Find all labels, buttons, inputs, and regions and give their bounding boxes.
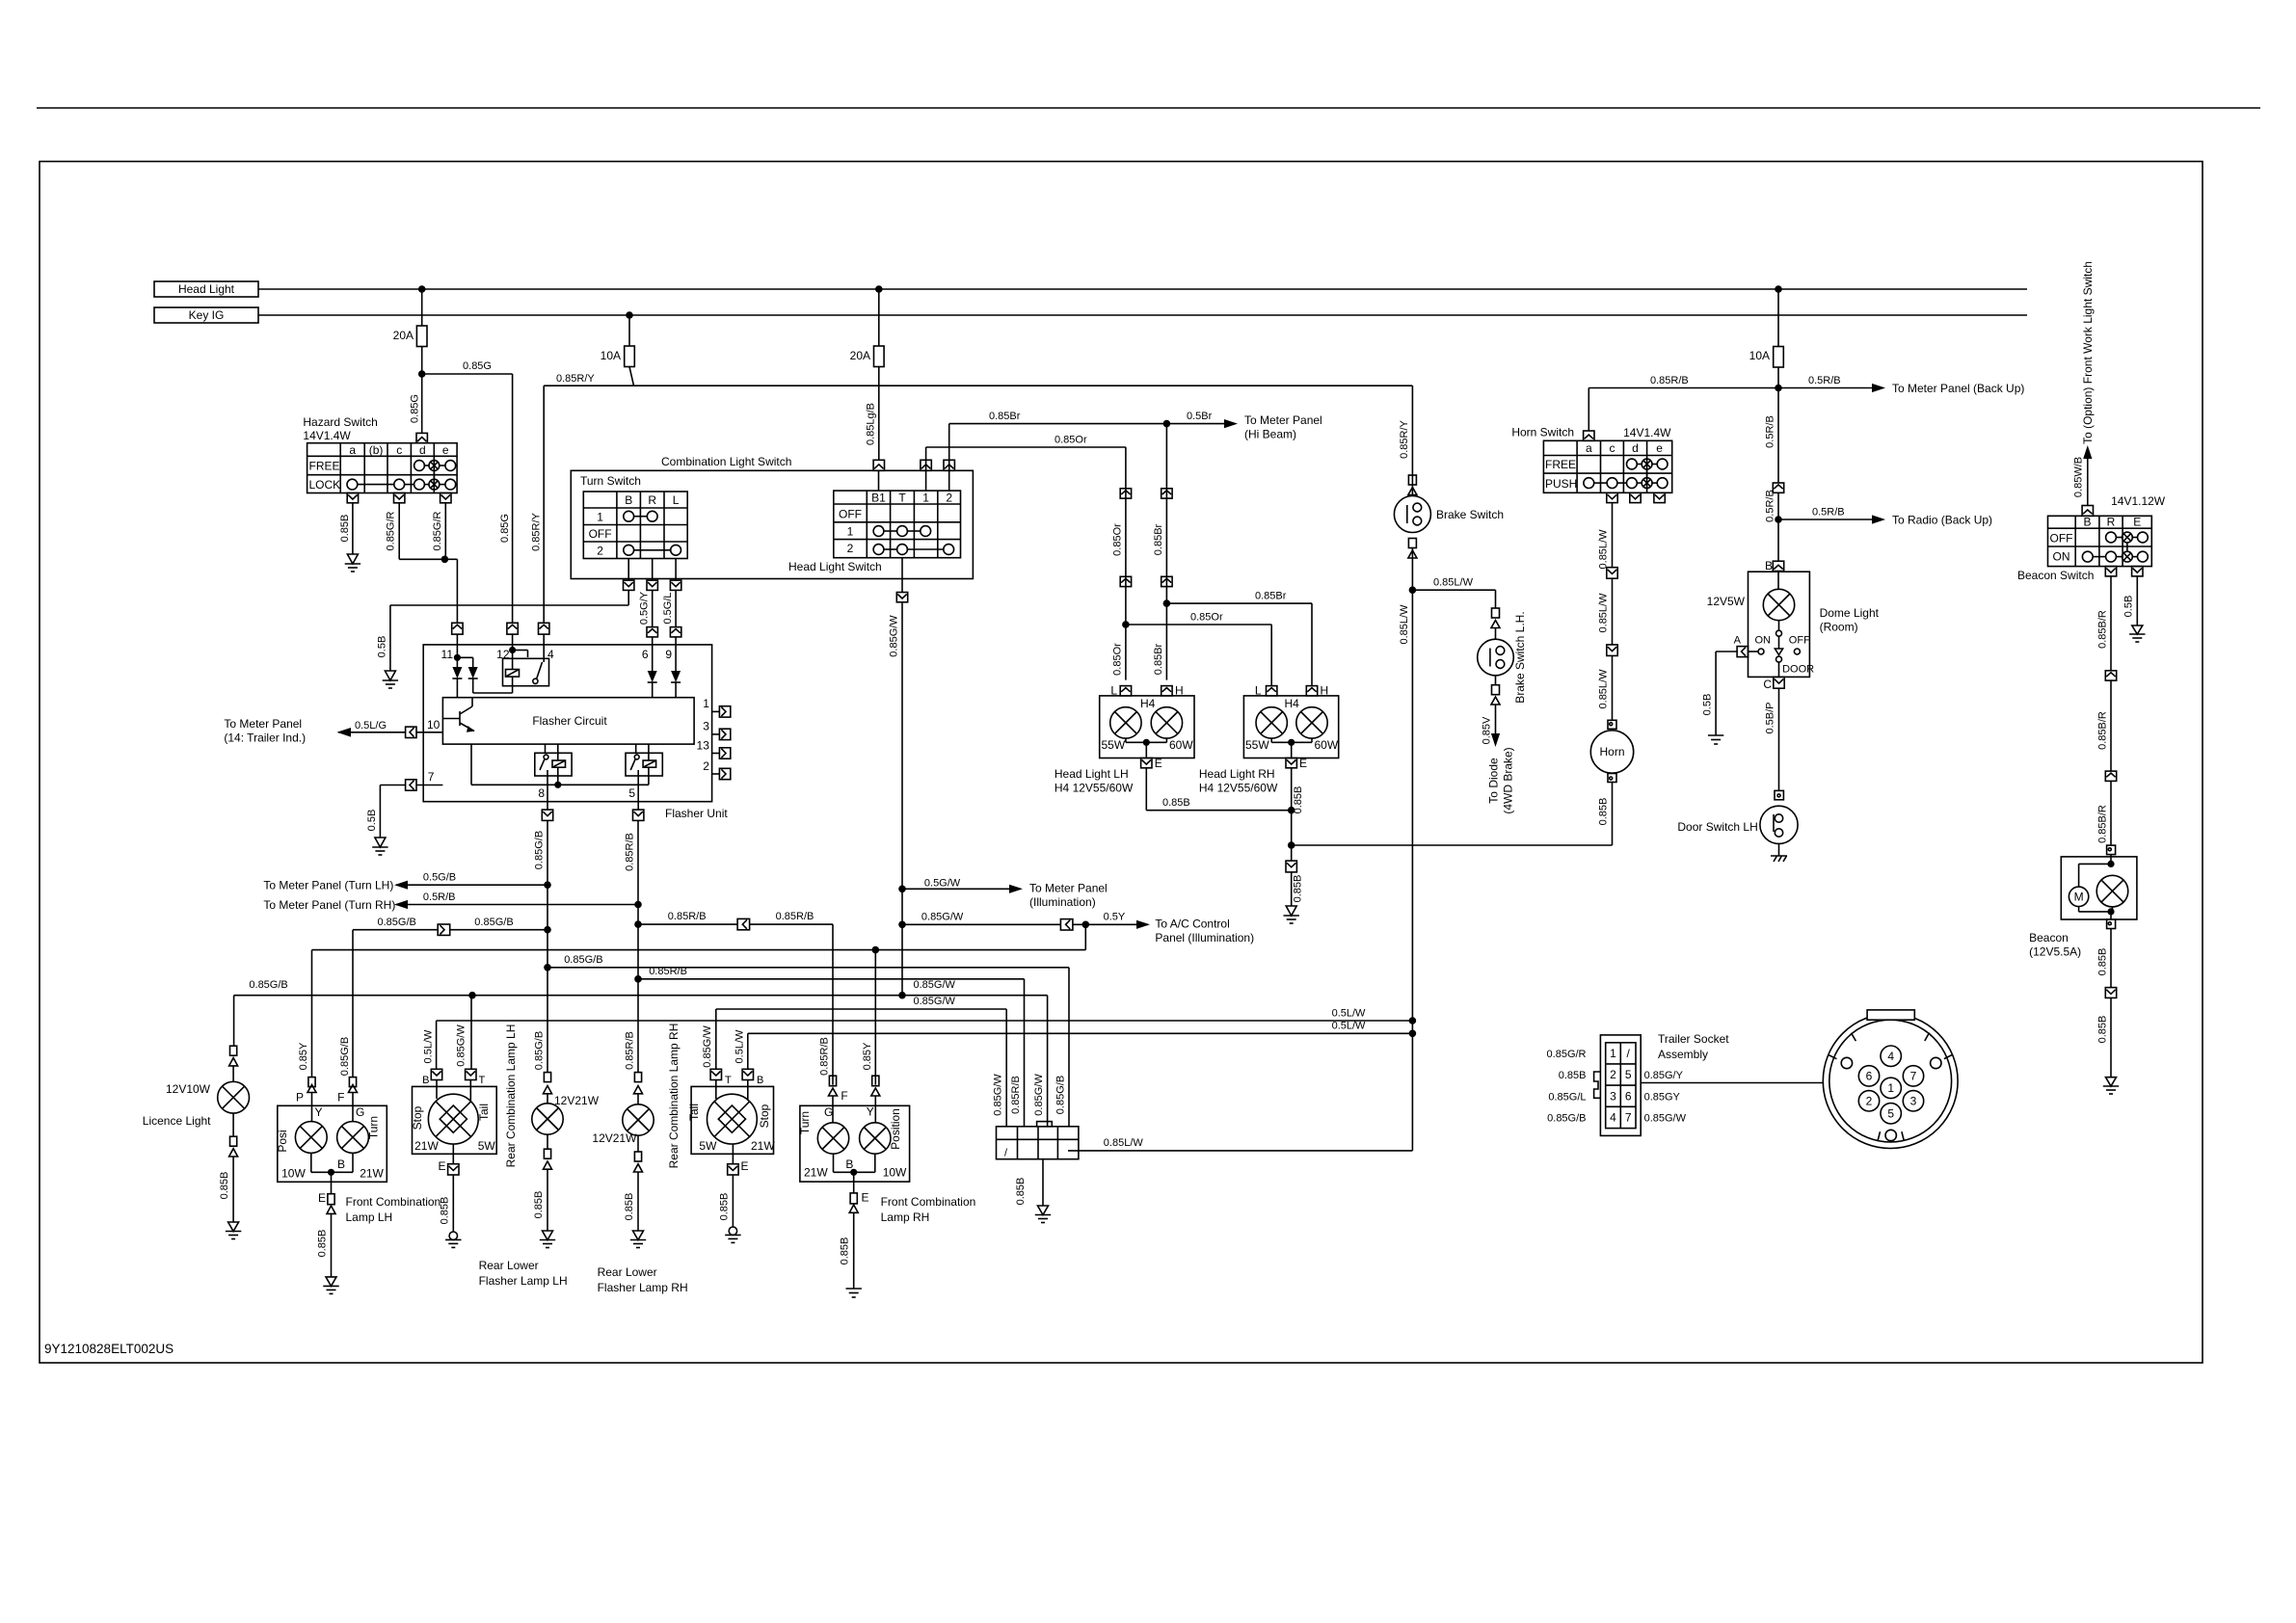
svg-text:9: 9 — [665, 648, 672, 661]
svg-text:12V5W: 12V5W — [1707, 595, 1746, 608]
svg-text:0.85W/B: 0.85W/B — [2073, 457, 2085, 497]
svg-text:7: 7 — [1910, 1070, 1917, 1083]
connector on dome feed — [1773, 483, 1783, 492]
svg-text:Posi: Posi — [276, 1130, 289, 1152]
svg-text:0.85R/Y: 0.85R/Y — [531, 512, 543, 550]
trailer wiring connector block — [997, 1122, 1079, 1159]
svg-text:3: 3 — [1910, 1095, 1917, 1108]
connector beacon switch E bottom — [2132, 567, 2143, 576]
svg-text:Dome Light: Dome Light — [1820, 606, 1880, 620]
svg-text:P: P — [296, 1091, 304, 1104]
svg-text:(Hi Beam): (Hi Beam) — [1244, 428, 1296, 441]
dome light box — [1707, 572, 1880, 677]
svg-text:11: 11 — [441, 648, 454, 661]
wire 0.85Or branch to head light RH L — [1126, 612, 1271, 687]
svg-text:H4 12V55/60W: H4 12V55/60W — [1055, 782, 1134, 795]
ground beacon switch — [2129, 625, 2145, 642]
svg-text:0.85G/W: 0.85G/W — [702, 1025, 713, 1068]
brake switch — [1394, 496, 1504, 533]
svg-text:0.85B: 0.85B — [1559, 1070, 1587, 1081]
svg-text:Flasher Lamp RH: Flasher Lamp RH — [598, 1281, 688, 1294]
svg-text:0.85G/B: 0.85G/B — [249, 979, 287, 991]
svg-text:ON: ON — [1755, 635, 1772, 647]
rear lower flasher lamp LH label — [479, 1259, 568, 1288]
svg-text:0.85G/W: 0.85G/W — [455, 1024, 467, 1067]
svg-text:OFF: OFF — [839, 508, 862, 521]
connector on 0.85Or lower — [1120, 576, 1131, 586]
wire 0.85L-W horn feed — [1598, 503, 1613, 570]
wire 0.5B-P to door switch — [1765, 688, 1779, 790]
relay RL2 left — [535, 744, 572, 802]
ground flasher pin 7 — [372, 838, 387, 855]
svg-text:Lamp RH: Lamp RH — [881, 1211, 930, 1224]
svg-text:14V1.12W: 14V1.12W — [2111, 494, 2166, 508]
svg-text:0.85R/B: 0.85R/B — [624, 833, 635, 871]
hazard LOCK row contacts — [347, 479, 358, 490]
svg-text:F: F — [337, 1091, 344, 1104]
wire pin table to socket — [1641, 1082, 1823, 1084]
rear lower flasher lamp RH — [592, 1073, 654, 1231]
svg-text:0.85Br: 0.85Br — [1153, 523, 1164, 555]
rear lower flasher lamp RH label — [598, 1265, 688, 1294]
svg-text:Flasher Lamp LH: Flasher Lamp LH — [479, 1274, 568, 1288]
wire Key IG bus — [258, 314, 2027, 316]
svg-text:0.85Y: 0.85Y — [298, 1042, 309, 1070]
ground head lights — [1284, 906, 1299, 923]
svg-text:0.85G/Y: 0.85G/Y — [1644, 1070, 1684, 1081]
svg-text:0.85G/B: 0.85G/B — [474, 917, 513, 928]
ground door switch hatched — [1771, 843, 1787, 862]
connector on 0.85Or upper — [1120, 489, 1131, 498]
svg-text:1: 1 — [597, 511, 603, 524]
wire 0.85G-B to front combination lamp LH turn — [339, 917, 551, 1078]
wire 0.85R-Y horizontal — [544, 373, 1412, 386]
brake switch LH — [1478, 611, 1527, 703]
wire 0.5B pin 7 to ground — [366, 785, 406, 838]
svg-text:To Meter Panel: To Meter Panel — [1029, 882, 1108, 895]
wire 0.85Or from head light switch 1 — [926, 435, 1126, 471]
connector on 0.5G-L — [670, 627, 681, 645]
wire 0.85Br vertical to head lights — [1153, 420, 1170, 680]
wire 0.85G to flasher pin 12 — [499, 374, 513, 623]
svg-text:G: G — [824, 1105, 833, 1119]
svg-text:0.85Or: 0.85Or — [1190, 612, 1223, 624]
svg-text:0.5L/W: 0.5L/W — [1332, 1021, 1366, 1032]
svg-text:d: d — [1632, 441, 1639, 455]
svg-text:2: 2 — [597, 545, 603, 558]
svg-text:H4 12V55/60W: H4 12V55/60W — [1199, 782, 1278, 795]
svg-text:0.85G/R: 0.85G/R — [1547, 1049, 1587, 1060]
wire 0.5R-B to radio junction — [1765, 490, 1782, 561]
wire 0.85G-W to AC control panel — [898, 911, 1254, 945]
licence light — [143, 1046, 250, 1222]
svg-text:FREE: FREE — [309, 460, 340, 473]
fuse F4 10A — [1749, 289, 1784, 388]
dome light switch contacts — [1734, 630, 1814, 677]
svg-text:21W: 21W — [751, 1139, 775, 1153]
svg-text:Front Combination: Front Combination — [346, 1195, 441, 1209]
svg-text:0.5B: 0.5B — [1702, 694, 1714, 716]
connector pair front LH E — [318, 1191, 335, 1213]
border frame — [40, 162, 2203, 1364]
svg-text:10: 10 — [427, 718, 441, 732]
fuse F3 20A — [850, 289, 884, 460]
svg-text:Rear Combination Lamp RH: Rear Combination Lamp RH — [667, 1024, 681, 1169]
connector rear LH B — [422, 1029, 442, 1086]
hazard switch — [303, 415, 377, 442]
svg-text:0.85G/B: 0.85G/B — [1055, 1076, 1067, 1114]
svg-text:2: 2 — [1610, 1068, 1616, 1081]
svg-text:0.85Br: 0.85Br — [989, 411, 1021, 422]
svg-text:(12V5.5A): (12V5.5A) — [2029, 945, 2081, 959]
wire 0.5L-W stop lamp RH line — [748, 1021, 1416, 1070]
wire 0.85B head light RH E down — [1288, 768, 1304, 849]
rear combination lamp RH box — [687, 1080, 775, 1164]
svg-text:0.5R/B: 0.5R/B — [423, 891, 456, 903]
svg-text:Rear Lower: Rear Lower — [479, 1259, 539, 1272]
svg-text:0.85Br: 0.85Br — [1153, 643, 1164, 675]
head light RH box — [1243, 696, 1338, 758]
wire 0.85B to ground below junction — [1286, 845, 1304, 906]
wire 0.5L-G to meter panel trailer ind — [224, 717, 405, 745]
svg-text:0.85B: 0.85B — [440, 1197, 451, 1225]
svg-text:1: 1 — [922, 492, 929, 505]
connector head light LH H pin — [1161, 684, 1184, 698]
svg-text:10W: 10W — [281, 1167, 306, 1181]
svg-text:OFF: OFF — [2050, 532, 2073, 545]
svg-text:PUSH: PUSH — [1545, 477, 1577, 491]
svg-text:0.85L/W: 0.85L/W — [1104, 1137, 1144, 1149]
svg-text:0.85R/B: 0.85R/B — [649, 966, 687, 977]
horn switch FREE row contacts — [1627, 459, 1638, 469]
svg-text:1: 1 — [1887, 1081, 1894, 1095]
connector rear RH T — [702, 1025, 732, 1086]
svg-text:B: B — [625, 493, 632, 507]
svg-text:0.5R/B: 0.5R/B — [1808, 375, 1841, 386]
svg-text:0.5B/P: 0.5B/P — [1765, 702, 1776, 733]
svg-text:0.5R/B: 0.5R/B — [1765, 415, 1776, 448]
ground rear combination lamp LH — [445, 1232, 461, 1247]
svg-text:0.85B: 0.85B — [1598, 798, 1610, 826]
flasher pin 8 label and connector — [538, 786, 552, 1073]
svg-text:Stop: Stop — [758, 1104, 771, 1128]
svg-text:21W: 21W — [360, 1167, 384, 1181]
connector on 0.85Br upper — [1161, 489, 1172, 498]
svg-text:1: 1 — [1610, 1047, 1616, 1060]
trailer socket circle — [1823, 1010, 1958, 1149]
horn switch table — [1543, 440, 1671, 492]
svg-text:7: 7 — [428, 770, 435, 784]
wire Head Light bus — [258, 288, 2027, 290]
wire 0.85G-R hazard c down — [386, 503, 445, 560]
connector head light RH L pin — [1255, 684, 1277, 698]
wire 0.85L-W to brake switch LH — [1412, 577, 1495, 609]
wire 0.85V to diode arrow — [1482, 705, 1515, 814]
wire 0.5R-B to meter panel back up — [1778, 375, 2024, 395]
wire 0.85B trailer block to ground — [1015, 1159, 1043, 1206]
wire 0.85B beacon to ground — [2096, 929, 2111, 988]
connector head light switch T bottom — [896, 558, 907, 602]
diode D1 — [452, 667, 462, 698]
connector on horn wire lower — [1607, 645, 1617, 656]
svg-text:0.85B: 0.85B — [317, 1230, 329, 1258]
svg-text:13: 13 — [697, 738, 710, 752]
connector beacon switch B top — [2082, 506, 2093, 517]
ground rear lower flasher lamp RH — [630, 1231, 646, 1248]
connector pair below brake switch — [1408, 539, 1417, 559]
node Key IG bus tag — [154, 307, 258, 323]
flasher spare pins 1 3 13 2 — [697, 697, 731, 780]
flasher pin 12 wire and relay RL1 — [503, 645, 549, 693]
wire stubs turn switch to box bottom — [628, 559, 676, 581]
svg-text:ON: ON — [2053, 550, 2070, 564]
svg-text:(14: Trailer Ind.): (14: Trailer Ind.) — [224, 732, 306, 745]
svg-text:0.85R/B: 0.85R/B — [668, 911, 707, 922]
wire 0.85R-B horn switch a up to fuse — [1589, 375, 1781, 431]
svg-text:e: e — [442, 443, 449, 457]
wire 0.85G-W head light switch T down — [889, 602, 902, 996]
svg-text:0.85G/W: 0.85G/W — [1033, 1074, 1045, 1116]
svg-text:5: 5 — [1887, 1107, 1894, 1121]
svg-text:0.85L/W: 0.85L/W — [1598, 593, 1610, 633]
flasher internal bottom wiring — [471, 744, 649, 788]
wire 0.85B rear LH to ground — [440, 1175, 454, 1232]
svg-text:0.85B/R: 0.85B/R — [2096, 711, 2108, 750]
connector horn switch e bottom — [1654, 492, 1665, 502]
ground rear combination lamp RH — [725, 1227, 740, 1242]
svg-text:0.5L/W: 0.5L/W — [422, 1029, 434, 1063]
svg-text:0.85L/W: 0.85L/W — [1433, 577, 1474, 589]
beacon OFF row contacts — [2106, 532, 2117, 543]
svg-text:(Illumination): (Illumination) — [1029, 895, 1096, 909]
svg-text:12V21W: 12V21W — [592, 1131, 637, 1145]
svg-text:0.85G/B: 0.85G/B — [533, 831, 545, 869]
ground hazard a — [345, 554, 360, 572]
svg-text:Panel (Illumination): Panel (Illumination) — [1155, 931, 1254, 945]
svg-text:5W: 5W — [699, 1139, 717, 1153]
flasher circuit inner box — [442, 698, 694, 744]
svg-text:0.85G: 0.85G — [499, 514, 511, 543]
svg-text:0.85R/Y: 0.85R/Y — [556, 373, 595, 385]
wire 0.85B head light LH E to junction — [1146, 768, 1291, 811]
svg-text:Combination Light Switch: Combination Light Switch — [661, 455, 791, 468]
connector pair front RH E — [849, 1191, 868, 1213]
svg-text:0.85G/B: 0.85G/B — [1547, 1113, 1586, 1125]
svg-text:Front Combination: Front Combination — [881, 1195, 976, 1209]
svg-text:55W: 55W — [1245, 738, 1269, 752]
svg-text:0.85Or: 0.85Or — [1055, 435, 1087, 446]
svg-text:Brake Switch: Brake Switch — [1436, 508, 1504, 521]
combination light switch box — [571, 455, 973, 579]
svg-text:Head Light LH: Head Light LH — [1055, 767, 1129, 781]
svg-text:6: 6 — [642, 648, 649, 661]
wire 0.5G-B to meter panel turn LH — [263, 872, 550, 892]
connector hazard c bottom — [394, 493, 405, 503]
svg-text:0.5B: 0.5B — [2123, 596, 2135, 618]
connector pair above brake switch LH — [1491, 608, 1500, 639]
svg-text:2: 2 — [703, 759, 709, 773]
svg-text:To Meter Panel (Turn LH): To Meter Panel (Turn LH) — [263, 879, 393, 892]
svg-text:20A: 20A — [393, 329, 414, 342]
connector horn switch c bottom — [1607, 492, 1617, 502]
connector dome light C — [1763, 677, 1784, 691]
svg-text:0.5G/W: 0.5G/W — [924, 878, 961, 890]
connector on 0.85R-Y above pin 4 — [539, 623, 549, 645]
svg-text:M: M — [2074, 891, 2084, 904]
svg-text:0.85L/W: 0.85L/W — [1399, 604, 1410, 645]
front combination lamp LH label — [346, 1195, 441, 1224]
ground licence light — [226, 1222, 241, 1239]
connector turn switch L bottom — [670, 580, 681, 590]
svg-text:H: H — [1321, 684, 1329, 698]
wire 0.5L-W stop lamp LH line — [437, 1007, 1417, 1069]
svg-text:Beacon Switch: Beacon Switch — [2017, 569, 2094, 582]
wire hazard junction to flasher pin 11 — [444, 559, 457, 623]
svg-text:B: B — [422, 1075, 429, 1086]
connector on 0.85Br lower — [1161, 576, 1172, 586]
svg-text:0.85B: 0.85B — [339, 515, 351, 543]
svg-text:0.85B: 0.85B — [219, 1172, 230, 1200]
dome light lamp — [1763, 572, 1794, 630]
svg-text:6: 6 — [1866, 1070, 1873, 1083]
flasher pin 7 stub and connector — [406, 770, 443, 790]
turn switch row 2 contacts — [624, 545, 634, 555]
wire 0.5R-B dome light feed — [1765, 388, 1779, 484]
connector hazard e bottom — [441, 493, 451, 503]
svg-text:1: 1 — [703, 697, 709, 710]
svg-text:H: H — [1175, 684, 1184, 698]
ground front combination lamp LH — [323, 1277, 338, 1294]
beacon work light note — [2073, 261, 2096, 505]
wire 0.85L-W brake switch down — [1399, 548, 1416, 1151]
wire 0.85G hazard feed horizontal — [418, 360, 513, 378]
svg-text:R: R — [2107, 516, 2116, 529]
wire stubs head light switch columns — [879, 470, 949, 491]
beacon ON row contacts — [2082, 551, 2093, 562]
connector turn switch B bottom — [624, 580, 634, 590]
svg-text:To Meter Panel: To Meter Panel — [1244, 413, 1322, 427]
svg-text:B: B — [337, 1157, 345, 1171]
svg-text:B1: B1 — [871, 492, 886, 505]
svg-text:0.85B: 0.85B — [2096, 948, 2108, 976]
svg-text:0.85G/W: 0.85G/W — [993, 1074, 1004, 1116]
svg-text:0.85G/W: 0.85G/W — [921, 911, 964, 922]
svg-text:0.85G/B: 0.85G/B — [564, 954, 602, 966]
svg-text:Head Light RH: Head Light RH — [1199, 767, 1275, 781]
ground beacon — [2103, 1078, 2119, 1094]
svg-text:0.85Lg/B: 0.85Lg/B — [866, 403, 877, 445]
head light RH label — [1199, 767, 1278, 795]
svg-text:5: 5 — [1625, 1068, 1632, 1081]
beacon — [2061, 845, 2137, 928]
head light switch table — [834, 491, 961, 558]
svg-text:B: B — [845, 1157, 853, 1171]
flasher pin 10 stub and connector — [406, 718, 443, 738]
connector head light LH L pin — [1110, 684, 1131, 698]
connector on beacon ground wire — [2105, 988, 2116, 998]
trailer socket pin labels left — [1547, 1049, 1587, 1125]
wire 0.5G-W to meter panel illumination — [898, 878, 1108, 909]
connector on 0.5G-Y — [647, 627, 657, 645]
svg-text:0.85B: 0.85B — [719, 1193, 731, 1221]
svg-text:0.85B/R: 0.85B/R — [2096, 805, 2108, 843]
svg-text:d: d — [419, 443, 426, 457]
svg-text:F: F — [841, 1089, 847, 1103]
svg-text:Door Switch LH: Door Switch LH — [1677, 820, 1757, 834]
svg-text:0.85B/R: 0.85B/R — [2096, 610, 2108, 649]
head light switch row 1 contacts — [873, 526, 884, 537]
hazard FREE row contacts — [414, 461, 425, 471]
hazard switch table — [307, 443, 458, 493]
svg-text:0.85Or: 0.85Or — [1112, 523, 1124, 556]
svg-text:6: 6 — [1625, 1089, 1632, 1103]
svg-text:Hazard Switch: Hazard Switch — [303, 415, 377, 429]
svg-text:Turn: Turn — [798, 1111, 812, 1134]
wire horn ground bus — [1292, 844, 1613, 846]
connector horn switch a top — [1584, 431, 1594, 440]
svg-text:0.5L/W: 0.5L/W — [734, 1029, 745, 1063]
svg-text:0.5R/B: 0.5R/B — [1812, 507, 1845, 519]
head light switch row 2 contacts — [873, 545, 884, 555]
svg-text:10A: 10A — [601, 349, 621, 362]
wire 0.85Br from head light switch 2 — [949, 411, 1167, 470]
svg-text:4: 4 — [1887, 1050, 1894, 1063]
door switch LH — [1677, 790, 1798, 843]
svg-text:1: 1 — [847, 524, 854, 538]
wire 0.85L-W horn mid — [1598, 578, 1613, 645]
trailer socket pin labels right — [1644, 1070, 1687, 1124]
connector pair front LH P — [296, 1078, 316, 1104]
svg-text:Y: Y — [315, 1105, 323, 1119]
svg-text:0.85V: 0.85V — [1482, 716, 1493, 744]
svg-text:DOOR: DOOR — [1782, 664, 1814, 676]
wire 0.85B rear RH to ground — [719, 1175, 734, 1227]
svg-text:R: R — [648, 493, 656, 507]
svg-text:0.85R/B: 0.85R/B — [624, 1031, 635, 1070]
flasher pins 6 and 9 wires with diodes — [648, 645, 681, 698]
connector rear RH E — [728, 1159, 749, 1175]
svg-text:5W: 5W — [478, 1139, 496, 1153]
svg-text:Brake Switch L.H.: Brake Switch L.H. — [1513, 611, 1527, 703]
svg-text:OFF: OFF — [589, 527, 612, 541]
svg-text:Assembly: Assembly — [1658, 1048, 1708, 1061]
svg-text:0.85R/B: 0.85R/B — [819, 1037, 831, 1076]
svg-text:0.85B: 0.85B — [624, 1193, 635, 1221]
svg-text:20A: 20A — [850, 349, 870, 362]
wire 0.85B-R beacon switch R down — [2096, 576, 2111, 671]
svg-text:0.5L/G: 0.5L/G — [355, 720, 387, 732]
node Head Light bus tag — [154, 281, 258, 297]
svg-text:c: c — [396, 443, 402, 457]
svg-text:Horn: Horn — [1599, 745, 1624, 758]
svg-text:OFF: OFF — [1789, 635, 1810, 647]
svg-text:0.5B: 0.5B — [377, 636, 388, 658]
svg-text:E: E — [438, 1159, 445, 1173]
svg-text:0.85L/W: 0.85L/W — [1598, 529, 1610, 570]
svg-text:0.85Y: 0.85Y — [862, 1042, 873, 1070]
turn switch row 1 contacts — [624, 511, 634, 521]
svg-text:0.85R/Y: 0.85R/Y — [1399, 419, 1410, 458]
svg-text:B: B — [1765, 559, 1773, 572]
svg-text:E: E — [1299, 757, 1307, 770]
svg-text:12V10W: 12V10W — [166, 1082, 211, 1096]
flasher unit outer box — [423, 645, 728, 820]
svg-text:To Radio (Back Up): To Radio (Back Up) — [1892, 514, 1992, 527]
svg-text:0.85R/B: 0.85R/B — [776, 911, 814, 922]
connector on 0.85G above pin 12 — [507, 623, 518, 645]
connector head light switch 1 top — [921, 460, 931, 470]
wire to horn terminal — [1598, 655, 1613, 720]
